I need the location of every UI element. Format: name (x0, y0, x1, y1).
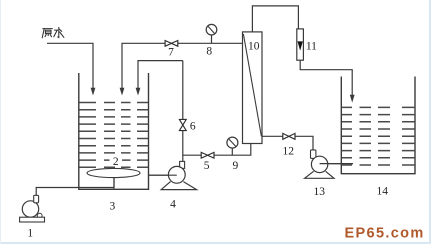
svg-text:2: 2 (113, 156, 119, 168)
svg-text:13: 13 (313, 186, 325, 198)
svg-text:EP65.com: EP65.com (345, 226, 425, 242)
svg-text:8: 8 (206, 45, 212, 57)
svg-text:1: 1 (27, 227, 33, 239)
svg-text:5: 5 (204, 160, 210, 172)
svg-text:4: 4 (170, 198, 176, 210)
svg-text:10: 10 (248, 40, 260, 52)
svg-text:12: 12 (283, 145, 295, 157)
svg-text:14: 14 (376, 185, 388, 197)
svg-text:6: 6 (190, 120, 196, 132)
svg-text:11: 11 (306, 40, 317, 52)
svg-text:7: 7 (168, 47, 174, 59)
svg-text:3: 3 (110, 200, 116, 212)
svg-text:9: 9 (233, 160, 239, 172)
